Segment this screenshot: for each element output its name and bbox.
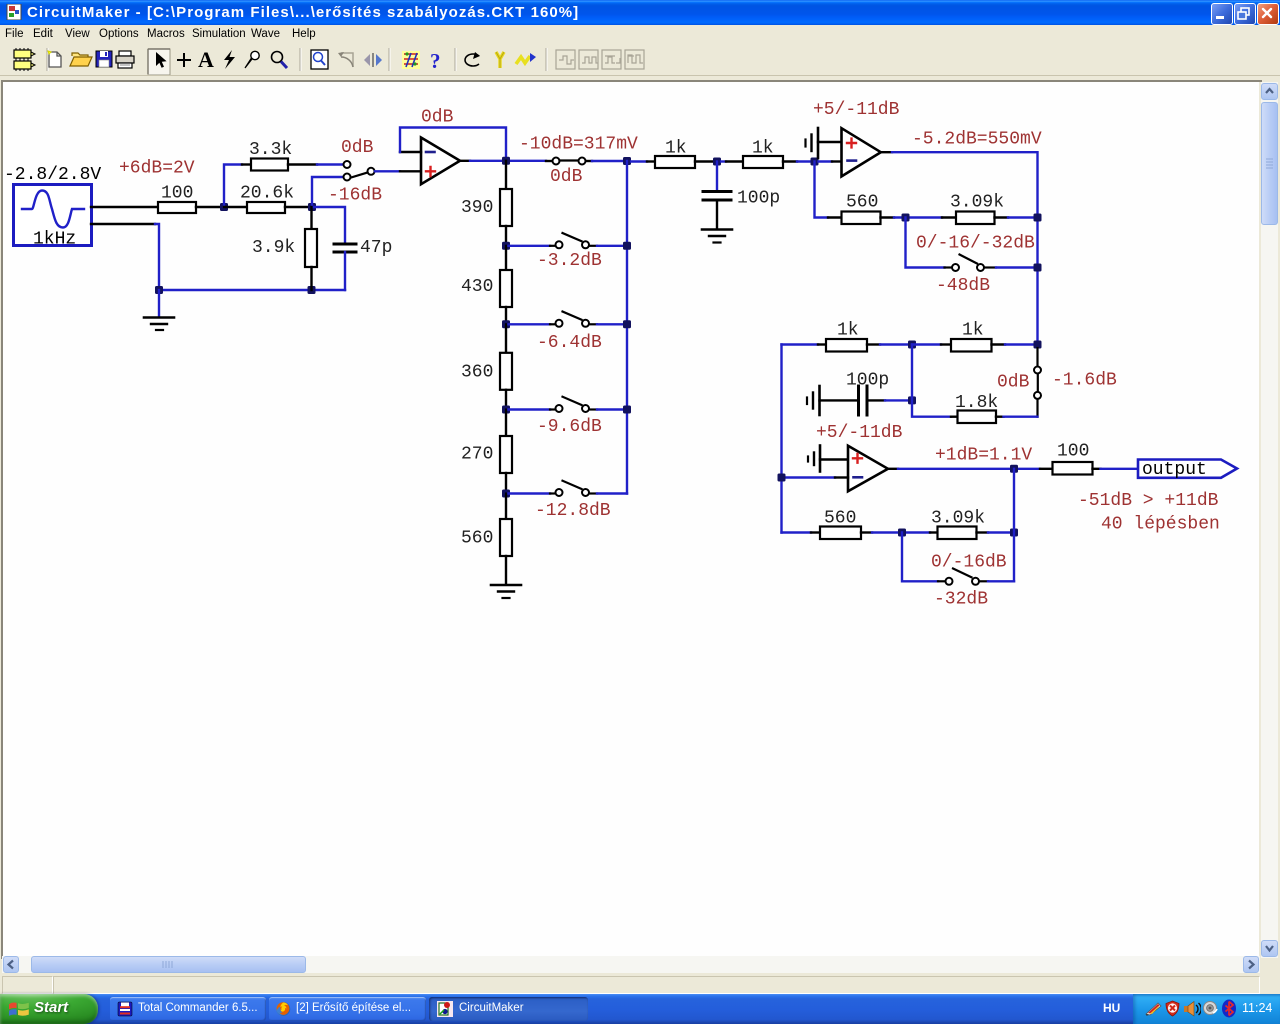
save bbox=[96, 51, 112, 67]
thumb bbox=[31, 956, 306, 973]
resistor R4 3.9k vertical bbox=[252, 207, 317, 290]
svg-text:-6.4dB: -6.4dB bbox=[537, 333, 602, 353]
switch SW1 SPDT bbox=[344, 161, 375, 181]
stage3 left bus wire bbox=[780, 345, 782, 533]
U1 minus input lead bbox=[400, 151, 421, 153]
op-amp U2 bbox=[842, 128, 881, 176]
wire bus to R10 bbox=[631, 160, 647, 162]
node ladder row1 bbox=[502, 242, 510, 250]
svg-text:360: 360 bbox=[461, 363, 493, 383]
svg-text:+6dB=2V: +6dB=2V bbox=[119, 159, 195, 179]
ground rail wire bbox=[159, 289, 345, 291]
svg-text:-12.8dB: -12.8dB bbox=[535, 501, 611, 521]
svg-text:0dB: 0dB bbox=[341, 138, 374, 158]
ground GND1 bbox=[144, 318, 174, 331]
wire U2 node down to 560 bbox=[815, 162, 829, 218]
svg-text:0/-16dB: 0/-16dB bbox=[931, 553, 1007, 573]
wire R17 to node D bbox=[872, 531, 930, 533]
wire node D down to SW9 bbox=[902, 533, 938, 582]
rotate bbox=[465, 52, 480, 66]
svg-text:-2.8/2.8V: -2.8/2.8V bbox=[4, 165, 101, 185]
up arrow button bbox=[1261, 83, 1278, 100]
resistor R6 430 bbox=[461, 246, 512, 324]
svg-text:100p: 100p bbox=[737, 189, 780, 209]
resistor R11 1k bbox=[721, 139, 797, 169]
wire 3.09k to U3 out bus bbox=[988, 531, 1014, 533]
node N3 junction bbox=[713, 158, 721, 166]
output flag bbox=[1138, 460, 1237, 481]
svg-text:560: 560 bbox=[846, 193, 878, 213]
op-amp U3 bbox=[848, 446, 888, 492]
node N5 junction bbox=[902, 214, 910, 222]
wire SW7 to bus bbox=[996, 266, 1038, 268]
U2 minus input lead bbox=[819, 160, 842, 162]
svg-text:430: 430 bbox=[461, 277, 493, 297]
switch SW3 -3.2dB open bbox=[506, 233, 627, 248]
digital option icon bbox=[402, 51, 420, 69]
svg-text:1k: 1k bbox=[665, 139, 687, 159]
print bbox=[116, 51, 134, 68]
svg-text:40 lépésben: 40 lépésben bbox=[1101, 515, 1220, 535]
svg-text:390: 390 bbox=[461, 198, 493, 218]
wire SW1 to opamp U1 bbox=[375, 170, 421, 172]
resistor R15 1k bbox=[912, 321, 1005, 352]
ground GND6 sideways at U3 plus input bbox=[808, 446, 848, 472]
node ladder row2 bbox=[502, 320, 510, 328]
wire 3.09k to bus bbox=[1008, 216, 1038, 218]
wire SW2 to bus bbox=[592, 160, 627, 162]
U1 output wire bbox=[460, 160, 546, 162]
switch SW2 closed 0dB bbox=[546, 158, 592, 165]
switch SW4 -6.4dB open bbox=[506, 312, 627, 327]
ladder bus wire bbox=[626, 161, 628, 494]
switch SW5 -9.6dB open bbox=[506, 397, 627, 412]
node C junction bbox=[908, 396, 916, 404]
svg-text:3.09k: 3.09k bbox=[931, 509, 985, 529]
wire N5 down to SW7 bbox=[906, 218, 945, 268]
svg-text:560: 560 bbox=[824, 509, 856, 529]
U3 minus input lead bbox=[782, 476, 849, 478]
Total Commander task button bbox=[110, 997, 266, 1021]
wire source top lead bbox=[91, 206, 158, 208]
wire R11 to U2 node bbox=[797, 160, 815, 162]
fit page bbox=[338, 52, 353, 67]
thumb bbox=[1261, 102, 1278, 225]
svg-text:0dB: 0dB bbox=[550, 167, 583, 187]
node N2 junction bbox=[308, 203, 316, 211]
resistor R19 100 bbox=[1053, 442, 1101, 475]
node ladder row3 bbox=[502, 406, 510, 414]
svg-text:20.6k: 20.6k bbox=[240, 184, 294, 204]
resistor R16 1.8k bbox=[951, 393, 1004, 423]
svg-text:-10dB=317mV: -10dB=317mV bbox=[519, 135, 638, 155]
expand arrows bbox=[364, 53, 382, 67]
disabled scope buttons bbox=[556, 50, 644, 69]
Firefox task button bbox=[269, 997, 426, 1021]
node U3 minus junction bbox=[778, 474, 786, 482]
view-box zoom bbox=[311, 50, 328, 69]
open bbox=[70, 53, 92, 66]
junction rail right bbox=[308, 286, 316, 294]
svg-text:-32dB: -32dB bbox=[934, 590, 988, 610]
node bus top junction bbox=[623, 157, 631, 165]
svg-text:47p: 47p bbox=[360, 238, 392, 258]
svg-text:-51dB > +11dB: -51dB > +11dB bbox=[1078, 491, 1219, 511]
new bbox=[48, 51, 61, 67]
svg-text:560: 560 bbox=[461, 529, 493, 549]
svg-text:3.3k: 3.3k bbox=[249, 140, 292, 160]
wire R15 to node B bbox=[1005, 343, 1038, 345]
node 3.09k right junction bbox=[1010, 529, 1018, 537]
wire node A down through C to 1.8k row bbox=[912, 345, 951, 417]
HU language bbox=[1103, 1001, 1120, 1015]
wire U3 out down to row bbox=[1013, 469, 1015, 582]
svg-text:-48dB: -48dB bbox=[936, 276, 990, 296]
capacitor C1 47p bbox=[334, 238, 392, 290]
svg-text:output: output bbox=[1142, 460, 1207, 480]
wire N2 to 47p branch bbox=[312, 207, 345, 243]
U1 feedback wire 0dB bbox=[400, 128, 506, 161]
svg-text:270: 270 bbox=[461, 445, 493, 465]
op-amp U1 bbox=[421, 138, 460, 185]
svg-text:-1.6dB: -1.6dB bbox=[1052, 371, 1117, 391]
resistor R2 3.3k bbox=[242, 140, 317, 171]
svg-text:?: ? bbox=[430, 49, 441, 73]
wire N1 up to 3.3k bbox=[224, 165, 242, 208]
wire to node N5 bbox=[894, 216, 942, 218]
svg-text:A: A bbox=[198, 47, 214, 72]
wire 3.3k to switch bbox=[317, 163, 342, 165]
wire R14 to node A bbox=[880, 343, 912, 345]
svg-text:-9.6dB: -9.6dB bbox=[537, 417, 602, 437]
U2 output wire bbox=[881, 152, 1038, 345]
svg-text:1k: 1k bbox=[962, 321, 984, 341]
svg-text:3.09k: 3.09k bbox=[950, 193, 1004, 213]
resistor R13 3.09k bbox=[942, 193, 1008, 225]
svg-text:-3.2dB: -3.2dB bbox=[537, 251, 602, 271]
svg-text:1k: 1k bbox=[837, 321, 859, 341]
node D junction bbox=[898, 529, 906, 537]
pressed arrow tool bbox=[148, 49, 170, 75]
signal source V1 bbox=[14, 185, 92, 250]
wire R19 to output flag bbox=[1101, 468, 1138, 470]
resistor R17 560 bbox=[811, 509, 872, 540]
svg-text:+5/-11dB: +5/-11dB bbox=[816, 423, 903, 443]
node bus row1 bbox=[623, 242, 631, 250]
node bus row2 bbox=[623, 320, 631, 328]
resistor R10 1k bbox=[647, 139, 717, 169]
switch SW9 -32dB open bbox=[938, 569, 988, 585]
svg-text:+5/-11dB: +5/-11dB bbox=[813, 100, 900, 120]
junction rail left bbox=[155, 286, 163, 294]
node A junction bbox=[908, 341, 916, 349]
node U1 out junction bbox=[502, 157, 510, 165]
wire U3 out to R19 bbox=[1040, 468, 1053, 470]
svg-text:0dB: 0dB bbox=[997, 373, 1030, 393]
node U3 out junction bbox=[1010, 465, 1018, 473]
switch SW6 -12.8dB open bbox=[506, 481, 627, 496]
node N4 U2 input junction bbox=[811, 158, 819, 166]
resistor R9 560 bbox=[461, 494, 512, 584]
resistor R7 360 bbox=[461, 324, 512, 409]
waveform tool bbox=[516, 53, 536, 64]
svg-text:3.9k: 3.9k bbox=[252, 238, 295, 258]
resistor R18 3.09k bbox=[930, 509, 988, 540]
plus tool bbox=[177, 53, 191, 67]
wire ground stem bbox=[158, 290, 160, 316]
svg-text:-16dB: -16dB bbox=[328, 186, 382, 206]
node ladder row4 bbox=[502, 490, 510, 498]
down arrow button bbox=[1261, 940, 1278, 957]
resistor R5 390 bbox=[461, 161, 512, 246]
tray icons bbox=[1145, 1001, 1162, 1017]
wire left bus to R14 bbox=[782, 343, 819, 345]
U3 output wire bbox=[888, 468, 1040, 470]
svg-text:0/-16/-32dB: 0/-16/-32dB bbox=[916, 234, 1035, 254]
wire to ground rail bbox=[155, 224, 159, 290]
lightning bbox=[224, 50, 235, 69]
left arrow bbox=[3, 956, 19, 973]
resistor R3 20.6k bbox=[224, 184, 312, 214]
svg-text:0dB: 0dB bbox=[421, 108, 454, 128]
Start button bbox=[0, 994, 98, 1024]
svg-text:1k: 1k bbox=[752, 139, 774, 159]
svg-text:100p: 100p bbox=[846, 371, 889, 391]
node bus SW7 junction bbox=[1034, 264, 1042, 272]
svg-text:1.8k: 1.8k bbox=[955, 393, 998, 413]
ground GND2 bbox=[491, 585, 521, 598]
resistor R8 270 bbox=[461, 410, 512, 494]
ground GND4 sideways at U2 plus input bbox=[806, 128, 842, 158]
probe bbox=[245, 51, 259, 68]
CircuitMaker task button (pressed) bbox=[429, 997, 588, 1021]
resistor R14 1k bbox=[818, 321, 880, 352]
node B junction bbox=[1034, 341, 1042, 349]
capacitor C3 100p bbox=[820, 371, 890, 416]
ground GND3 bbox=[702, 230, 732, 243]
resistor R12 560 bbox=[828, 193, 894, 225]
switch SW8 vertical closed bbox=[1034, 348, 1041, 417]
wrench Y bbox=[496, 52, 504, 68]
wire 1.8k to SW8 bottom bbox=[1004, 416, 1038, 418]
System tray bbox=[1133, 994, 1280, 1024]
resistor R1 100 bbox=[158, 184, 224, 214]
svg-text:100: 100 bbox=[1057, 442, 1089, 462]
wire C3 to node C bbox=[885, 399, 912, 401]
switch SW7 -48dB open bbox=[945, 255, 997, 272]
wire N2 up to switch throw B bbox=[312, 177, 342, 207]
node bus row3 bbox=[623, 406, 631, 414]
ground GND5 sideways at C3 bbox=[807, 386, 820, 415]
svg-text:+1dB=1.1V: +1dB=1.1V bbox=[935, 446, 1032, 466]
wire stage3 bottom row bbox=[782, 531, 812, 533]
zoom bbox=[272, 52, 288, 69]
svg-text:100: 100 bbox=[161, 184, 193, 204]
right arrow bbox=[1243, 956, 1259, 973]
wire SW9 to out bus bbox=[988, 580, 1014, 582]
svg-text:-5.2dB=550mV: -5.2dB=550mV bbox=[912, 130, 1042, 150]
node bus 3.09k junction bbox=[1034, 214, 1042, 222]
svg-text:1kHz: 1kHz bbox=[33, 230, 76, 250]
chip browse icon bbox=[14, 48, 35, 71]
wire source bottom lead bbox=[91, 223, 155, 225]
node N1 junction bbox=[220, 203, 228, 211]
capacitor C2 100p bbox=[703, 162, 780, 230]
